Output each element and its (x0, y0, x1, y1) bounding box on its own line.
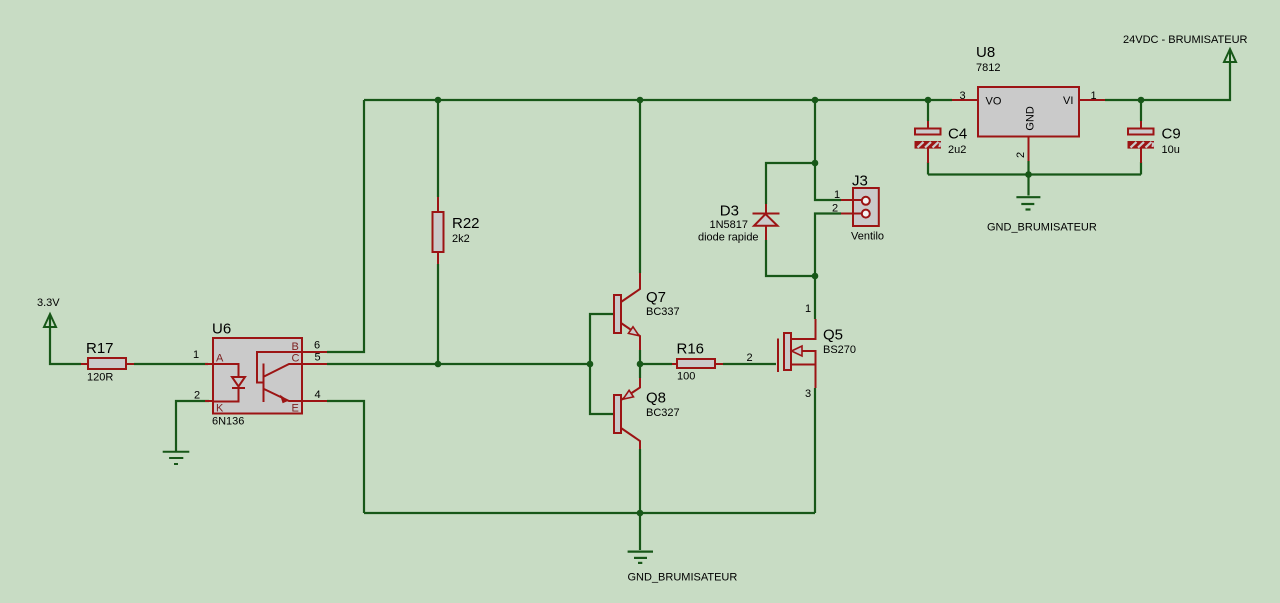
Q8 emitter arrow (623, 390, 634, 399)
svg-text:3.3V: 3.3V (37, 297, 60, 309)
resistor R16 (672, 341, 753, 383)
svg-text:A: A (216, 353, 224, 365)
svg-text:1N5817: 1N5817 (710, 219, 749, 231)
svg-text:120R: 120R (87, 372, 113, 384)
U6 body box (213, 338, 302, 414)
wire U6 pin2 to ground (176, 401, 209, 451)
svg-text:D3: D3 (720, 203, 739, 220)
node D3 top (812, 160, 819, 167)
svg-text:K: K (216, 403, 224, 415)
optocoupler U6 (193, 321, 327, 428)
svg-text:Q8: Q8 (646, 390, 666, 407)
wire C9 bottom (1140, 162, 1142, 175)
svg-text:C4: C4 (948, 126, 967, 143)
svg-text:Q5: Q5 (823, 327, 843, 344)
Q7 emitter arrow (628, 327, 639, 336)
svg-text:Q7: Q7 (646, 289, 666, 306)
svg-text:1: 1 (834, 189, 840, 201)
wire U8 pin2 down (1027, 161, 1029, 175)
R17 pin stubs (81, 363, 134, 365)
diode D3 (698, 203, 780, 244)
svg-text:1: 1 (1091, 90, 1097, 102)
transistor Q7 (614, 273, 680, 350)
J3 pin circle 1 (862, 197, 870, 205)
wire bottom rail (364, 512, 815, 514)
capacitor C4 (915, 121, 967, 163)
wire R22 bottom to node (437, 264, 439, 364)
Q5 drain lead (791, 319, 816, 339)
wire C4 top (927, 100, 929, 121)
wire D3 bottom branch (766, 240, 815, 276)
wire D3 top branch (766, 163, 815, 204)
svg-text:1: 1 (193, 349, 199, 361)
wire 3.3V to R17 (50, 316, 81, 364)
J3 pin circle 2 (862, 210, 870, 218)
node R22 base row (435, 361, 442, 368)
Q5 gate line (777, 339, 779, 373)
C4 pin stubs (927, 121, 929, 163)
svg-text:2: 2 (194, 390, 200, 402)
U6 pin stubs (205, 352, 327, 401)
svg-text:GND_BRUMISATEUR: GND_BRUMISATEUR (987, 222, 1097, 234)
svg-text:BS270: BS270 (823, 344, 856, 356)
svg-text:C: C (292, 353, 300, 365)
wire Q7 emitter to node (639, 350, 641, 364)
svg-text:C9: C9 (1162, 126, 1181, 143)
svg-text:1: 1 (805, 303, 811, 315)
svg-text:GND_BRUMISATEUR: GND_BRUMISATEUR (628, 572, 738, 584)
wire gnd row U8 (928, 173, 1141, 175)
wire Q8 emitter to node (639, 364, 641, 378)
wire U6 pin4 to bottom rail (327, 401, 364, 513)
node rail C9 (1138, 97, 1145, 104)
U6 internal LED (213, 364, 245, 402)
C4 positive plate (915, 129, 941, 135)
node bottom rail ground (637, 510, 644, 517)
supply arrow 24VDC (1224, 49, 1236, 62)
wire rail to J3 pin1 (815, 100, 841, 200)
svg-text:2: 2 (1015, 152, 1027, 158)
regulator U8 (952, 44, 1105, 161)
C9 positive plate (1128, 129, 1154, 135)
D3 pin stubs (765, 204, 767, 240)
Q8 base bar (614, 395, 621, 433)
wire R17 to U6 pin1 (134, 363, 208, 365)
node rail J3 (812, 97, 819, 104)
wire right ground stem (1027, 175, 1029, 196)
U8 pin stub GND (1028, 137, 1030, 162)
J3 inner pin leads (853, 200, 862, 214)
wire R16 to Q5 gate (723, 363, 776, 365)
svg-text:R17: R17 (86, 340, 114, 357)
svg-text:6: 6 (314, 340, 320, 352)
svg-text:3: 3 (960, 90, 966, 102)
Q8 emitter lead (621, 378, 640, 400)
C9 hatched plate (1128, 142, 1154, 149)
wire Q7 collector to rail (639, 100, 641, 273)
ground under U6 (163, 452, 190, 464)
C9 pin stubs (1140, 121, 1142, 163)
wire node to R16 (640, 363, 672, 365)
svg-text:2u2: 2u2 (948, 144, 966, 156)
resistor R22 (433, 197, 480, 264)
svg-text:BC337: BC337 (646, 306, 680, 318)
Q5 bulk arrow (792, 346, 803, 356)
node rail C4 (925, 97, 932, 104)
wire base node to Q7 base (590, 314, 614, 364)
svg-text:R16: R16 (677, 341, 705, 358)
Q5 source lead (791, 365, 816, 389)
svg-text:R22: R22 (452, 215, 480, 232)
wire base node to Q8 base (590, 364, 614, 414)
D3 cathode bar (753, 213, 780, 215)
ground right GND_BRUMISATEUR (1016, 197, 1040, 209)
svg-text:VI: VI (1063, 95, 1073, 107)
U6 emitter arrow (280, 395, 289, 404)
svg-text:Ventilo: Ventilo (851, 231, 884, 243)
node base junction (587, 361, 594, 368)
Q7 emitter lead (621, 323, 640, 350)
wire C9 top (1140, 100, 1142, 121)
R16 body (677, 359, 715, 368)
Q7 collector lead (621, 273, 640, 302)
svg-text:BC327: BC327 (646, 407, 680, 419)
resistor R17 (81, 340, 134, 384)
node rail Q7 (637, 97, 644, 104)
Q8 collector lead (621, 428, 640, 449)
svg-text:U8: U8 (976, 44, 995, 61)
D3 anode triangle (754, 214, 778, 226)
svg-text:6N136: 6N136 (212, 416, 244, 428)
wire Q5 source to bottom rail (814, 388, 816, 513)
mosfet Q5 (778, 303, 856, 400)
U8 pin stubs VO VI (952, 99, 1105, 101)
node rail R22 (435, 97, 442, 104)
svg-text:U6: U6 (212, 321, 231, 338)
U6 internal phototransistor (257, 352, 302, 402)
svg-text:GND: GND (1025, 106, 1037, 131)
wire Q8 collector to bottom rail (639, 449, 641, 513)
C4 hatched plate (915, 142, 941, 149)
Q5 channel bar (784, 333, 791, 370)
wire U6 pin5 to base node (327, 363, 590, 365)
J3 pin stubs (841, 200, 853, 214)
svg-text:24VDC - BRUMISATEUR: 24VDC - BRUMISATEUR (1123, 34, 1248, 46)
node emitter junction (637, 361, 644, 368)
R17 body (88, 358, 126, 369)
J3 body box (853, 188, 879, 226)
wire top rail (364, 99, 952, 101)
svg-text:2k2: 2k2 (452, 233, 470, 245)
transistor Q8 (614, 378, 680, 449)
svg-text:5: 5 (315, 352, 321, 364)
svg-text:3: 3 (805, 388, 811, 400)
svg-text:VO: VO (986, 96, 1002, 108)
R22 body (433, 212, 444, 252)
Q5 bulk lead (802, 351, 816, 365)
wire J3 pin2 to Q5 drain (815, 214, 841, 320)
node D3 bottom (812, 273, 819, 280)
capacitor C9 (1128, 121, 1181, 163)
U6 pin names A K B C E (216, 341, 300, 415)
wire U6 pin6 to top rail (327, 100, 364, 352)
R22 pin stubs (437, 197, 439, 264)
svg-text:diode rapide: diode rapide (698, 232, 759, 244)
svg-text:4: 4 (315, 389, 321, 401)
wire C4 bottom (927, 162, 929, 175)
svg-text:2: 2 (832, 203, 838, 215)
svg-text:J3: J3 (852, 173, 868, 190)
svg-text:B: B (292, 341, 299, 353)
ground bottom GND_BRUMISATEUR (628, 552, 653, 563)
node gnd row U8 (1025, 171, 1032, 178)
svg-text:7812: 7812 (976, 62, 1000, 74)
U6 pin numbers 1 2 6 5 4 (193, 340, 321, 402)
svg-text:2: 2 (747, 352, 753, 364)
wire U8 pin1 to 24V arrow (1105, 62, 1230, 100)
svg-text:E: E (292, 402, 299, 414)
wire bottom ground stem (639, 513, 641, 550)
svg-text:10u: 10u (1162, 144, 1180, 156)
wire R22 top (437, 100, 439, 197)
R16 pin stubs (672, 363, 723, 365)
Q7 base bar (614, 295, 621, 333)
connector J3 (832, 173, 884, 243)
U8 body box (978, 87, 1079, 137)
supply arrow 3.3V (44, 314, 56, 364)
svg-text:100: 100 (677, 371, 695, 383)
